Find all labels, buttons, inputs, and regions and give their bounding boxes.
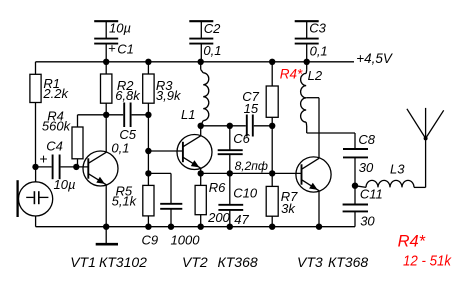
node rail C9: [168, 224, 174, 230]
label R4 value 560k: [42, 119, 72, 134]
svg-text:0,1: 0,1: [310, 44, 328, 59]
node bus junction at R2/C1: [103, 59, 109, 65]
svg-text:C1: C1: [117, 42, 134, 57]
svg-text:C3: C3: [309, 21, 326, 36]
svg-text:10µ: 10µ: [54, 177, 76, 192]
svg-text:3,9k: 3,9k: [156, 88, 182, 103]
svg-text:R4*: R4*: [398, 233, 426, 251]
capacitor C9: [148, 173, 182, 226]
node VT1 collector / R2 / C5 junction: [103, 112, 109, 118]
label R2: [117, 78, 134, 93]
svg-text:200: 200: [207, 210, 230, 225]
label C9 value 1000: [171, 232, 201, 247]
capacitor C4: [36, 155, 89, 180]
svg-text:30: 30: [360, 214, 375, 229]
svg-text:3k: 3k: [281, 201, 296, 216]
label R7: [281, 189, 298, 204]
capacitor C1 (supply filter, electrolytic 10u): [94, 21, 118, 62]
svg-text:L3: L3: [390, 162, 405, 177]
svg-text:C2: C2: [204, 21, 221, 36]
label C2 value 0,1: [203, 43, 221, 58]
node VT1 emitter / ground junction: [103, 224, 109, 230]
label L1: [181, 107, 195, 122]
label C9: [142, 232, 159, 247]
svg-text:C6: C6: [233, 131, 250, 146]
label C5 value 0,1: [111, 140, 129, 155]
label C8 value 30: [359, 160, 374, 175]
transistor VT3 (KT368): [296, 98, 331, 227]
label R2 value 6,8k: [115, 88, 141, 103]
label C5: [119, 127, 136, 142]
wire R4* column down: [271, 126, 273, 174]
svg-text:10µ: 10µ: [109, 21, 131, 36]
label R6 value 200: [207, 210, 230, 225]
wire +4,5V supply bus: [36, 61, 355, 63]
node C8 / C11 / L3 junction: [352, 183, 358, 189]
svg-text:6,8k: 6,8k: [115, 88, 141, 103]
capacitor C6: [218, 126, 243, 174]
inductor L1: [201, 62, 209, 126]
node bus junction at R4*: [269, 59, 275, 65]
resistor R5: [143, 173, 154, 226]
node VT3 base / R7 junction: [269, 170, 275, 176]
label C6: [233, 131, 250, 146]
node C7 / R4* junction: [269, 123, 275, 129]
label C4 value 10µ: [54, 177, 76, 192]
svg-text:8,2пф: 8,2пф: [235, 159, 268, 173]
antenna WA1: [407, 108, 444, 187]
label L2: [308, 68, 323, 83]
resistor R3: [143, 62, 154, 115]
wire L2 bottom to C8: [307, 126, 355, 148]
resistor R7: [266, 173, 278, 226]
label R4: [47, 109, 64, 124]
svg-text:0,1: 0,1: [111, 140, 129, 155]
microphone BM1 (electret): [18, 167, 53, 227]
svg-text:VT2: VT2: [182, 254, 208, 270]
label VT2 type: [182, 254, 258, 270]
label L3: [390, 162, 405, 177]
label C4 polarity +: [39, 150, 47, 166]
svg-text:47: 47: [234, 212, 249, 227]
label R3: [156, 78, 173, 93]
svg-text:0,1: 0,1: [203, 43, 221, 58]
label C8: [358, 132, 375, 147]
label VT1 type: [70, 254, 147, 270]
capacitor C7: [247, 115, 272, 137]
svg-text:5,1k: 5,1k: [112, 194, 138, 209]
label C6 value 8,2пф: [235, 159, 268, 173]
label R1: [43, 76, 60, 91]
capacitor C2 (decoupling 0,1): [189, 21, 213, 62]
node C4 / R4 / VT1 base junction: [73, 164, 79, 170]
capacitor C11: [343, 186, 368, 227]
node bus junction at R3: [145, 59, 151, 65]
node VT2 emitter junction: [198, 170, 204, 176]
svg-text:560k: 560k: [42, 119, 72, 134]
label C4: [46, 139, 63, 154]
svg-text:C10: C10: [233, 185, 258, 200]
capacitor C5: [106, 103, 148, 128]
label C11: [360, 187, 383, 202]
wire VT2 base column: [147, 115, 149, 174]
label R4* (red): [280, 66, 303, 81]
node rail VT3 emitter: [316, 224, 322, 230]
svg-text:КТ3102: КТ3102: [99, 254, 147, 270]
svg-text:12 - 51k: 12 - 51k: [403, 253, 452, 270]
svg-text:+4,5V: +4,5V: [356, 50, 393, 66]
wire VT3 base: [272, 172, 301, 174]
svg-text:R4*: R4*: [280, 66, 303, 81]
label C10 value 47: [234, 212, 249, 227]
label +4,5V: [356, 50, 393, 66]
node rail R7: [269, 224, 275, 230]
transistor VT2 (KT368): [177, 126, 212, 174]
svg-text:2.2k: 2.2k: [42, 86, 69, 101]
label R5 value 5,1k: [112, 194, 138, 209]
ground symbol: [96, 227, 118, 245]
svg-text:КТ368: КТ368: [328, 254, 368, 270]
label C3 value 0,1: [310, 44, 328, 59]
wire VT2 base: [148, 150, 183, 152]
svg-text:L1: L1: [181, 107, 195, 122]
node R1 / mic junction: [32, 164, 38, 170]
label R1 value 2.2k: [42, 86, 69, 101]
node C6 top tee: [227, 123, 233, 129]
svg-text:C4: C4: [46, 139, 63, 154]
label R6: [209, 180, 226, 195]
label R5: [116, 184, 133, 199]
label R3 value 3,9k: [156, 88, 182, 103]
transistor VT1 (KT3102): [83, 115, 118, 227]
svg-text:VT1: VT1: [70, 254, 96, 270]
resistor R4: [72, 115, 106, 167]
wire emitter row to VT3 base: [201, 172, 273, 174]
svg-text:C9: C9: [142, 232, 159, 247]
svg-text:C11: C11: [360, 187, 383, 202]
label C1 polarity and name: [108, 41, 134, 57]
resistor R6: [195, 173, 206, 226]
wire bottom common rail: [36, 226, 355, 228]
node rail R5: [145, 224, 151, 230]
capacitor C8: [343, 149, 368, 186]
resistor R1: [30, 62, 41, 167]
svg-text:VT3: VT3: [297, 254, 323, 270]
capacitor C3 (decoupling 0,1): [295, 21, 319, 62]
node VT2 base tee: [145, 148, 151, 154]
svg-text:30: 30: [359, 160, 374, 175]
node R5 / C9 tee: [145, 170, 151, 176]
capacitor C10: [218, 173, 243, 226]
svg-text:C8: C8: [358, 132, 375, 147]
label C7 value 15: [244, 101, 259, 116]
wire collector row: [201, 125, 246, 127]
svg-text:R6: R6: [209, 180, 226, 195]
resistor R2: [101, 62, 112, 115]
label R4* range 12 - 51k (red): [403, 253, 452, 270]
node R3 / C5 junction: [145, 112, 151, 118]
resistor R4* (select 12-51k): [266, 62, 278, 126]
label VT3 type: [297, 254, 368, 270]
node rail R6: [198, 224, 204, 230]
svg-text:1000: 1000: [171, 232, 201, 247]
label C3: [309, 21, 326, 36]
node bus junction at L1/C2: [198, 59, 204, 65]
inductor L3: [355, 180, 426, 187]
wire L2 tap to VT3 collector: [306, 97, 319, 99]
label R7 value 3k: [281, 201, 296, 216]
label C1 value 10µ: [109, 21, 131, 36]
label R4* note (red): [398, 233, 426, 251]
svg-text:КТ368: КТ368: [218, 254, 258, 270]
svg-text:15: 15: [244, 101, 259, 116]
label C7: [242, 89, 259, 104]
node rail C10: [227, 224, 233, 230]
node C6 bottom / C10 tee: [227, 170, 233, 176]
svg-text:+: +: [108, 41, 116, 56]
node bus junction at L2/C3: [304, 59, 310, 65]
label C10: [233, 185, 258, 200]
node VT2 collector / L1 junction: [198, 123, 204, 129]
label C2: [204, 21, 221, 36]
label C11 value 30: [360, 214, 375, 229]
inductor L2: [301, 62, 307, 126]
svg-text:+: +: [39, 150, 47, 166]
svg-text:L2: L2: [308, 68, 323, 83]
